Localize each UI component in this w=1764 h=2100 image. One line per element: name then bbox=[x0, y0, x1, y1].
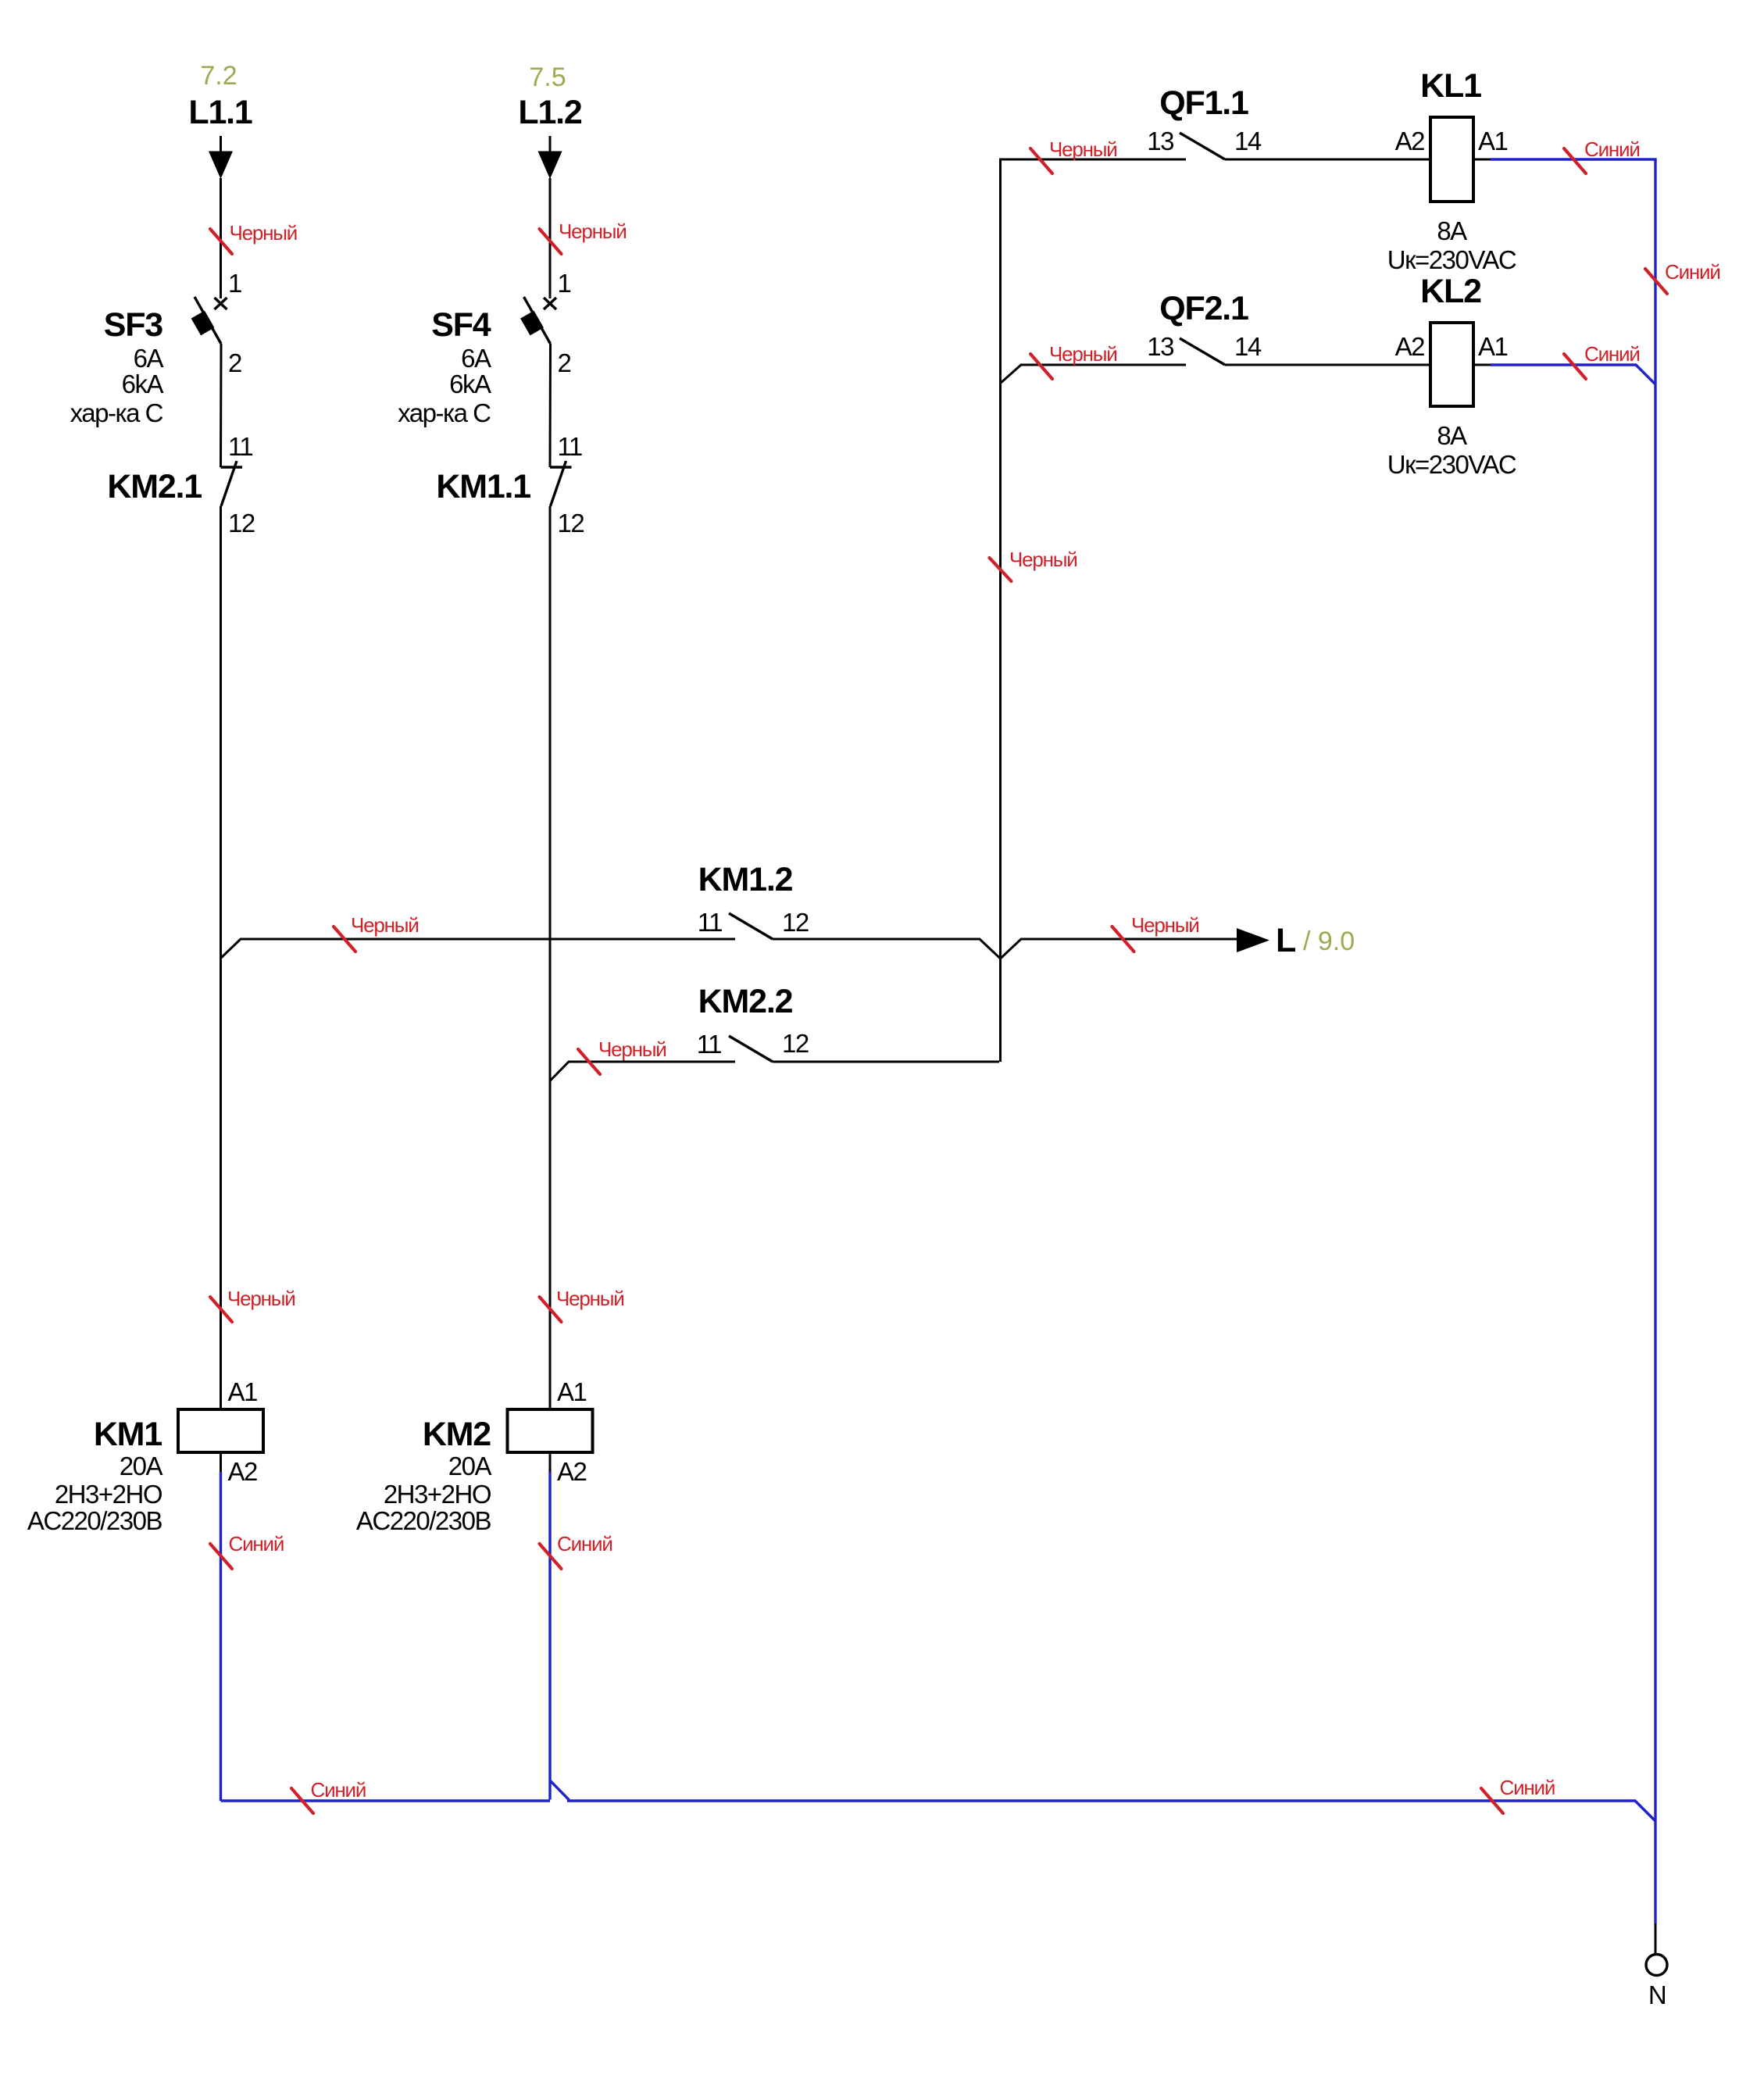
breaker SF3 blade bbox=[195, 297, 221, 344]
svg-text:KL2: KL2 bbox=[1420, 273, 1481, 310]
wire L1.1 down to SF3 pin 1 bbox=[220, 178, 222, 298]
svg-text:Синий: Синий bbox=[311, 1778, 366, 1802]
breaker SF3 release rectangle bbox=[191, 311, 215, 336]
relay coil KL2 rectangle bbox=[1430, 323, 1473, 406]
svg-text:20A: 20A bbox=[448, 1452, 492, 1480]
svg-text:KL1: KL1 bbox=[1420, 67, 1481, 105]
svg-text:Черный: Черный bbox=[1049, 342, 1117, 366]
relay coil KL1 rectangle bbox=[1430, 117, 1473, 202]
wire color slash Синий (below KM1) bbox=[210, 1544, 232, 1569]
jog from KM2 blue vertical into N bus bbox=[550, 1780, 570, 1800]
jog from control vertical to QF2.1 row bbox=[1001, 365, 1187, 384]
svg-text:13: 13 bbox=[1147, 332, 1173, 361]
svg-text:A1: A1 bbox=[1478, 127, 1508, 155]
svg-text:N: N bbox=[1648, 1980, 1666, 2009]
wire control vertical (QF branch) with corner to QF1.1 pin 13 bbox=[1001, 159, 1187, 1062]
wire KM1 A2 stub (black) bbox=[220, 1452, 222, 1472]
svg-text:хар-ка C: хар-ка C bbox=[398, 398, 491, 427]
svg-text:Черный: Черный bbox=[598, 1037, 666, 1061]
svg-text:2: 2 bbox=[228, 348, 241, 377]
breaker SF3 fixed contact x mark bbox=[215, 298, 227, 309]
wire QF1.1 pin14 to KL1 A2 bbox=[1225, 159, 1430, 161]
svg-text:Черный: Черный bbox=[559, 220, 627, 243]
wire color slash Синий (KL1 row) bbox=[1564, 148, 1586, 173]
wire to N terminal (black) bbox=[1655, 1923, 1657, 1955]
svg-text:KM2.1: KM2.1 bbox=[107, 468, 202, 505]
svg-text:A2: A2 bbox=[1395, 332, 1425, 361]
svg-text:A2: A2 bbox=[557, 1457, 587, 1486]
svg-text:12: 12 bbox=[228, 509, 255, 537]
terminal N circle bbox=[1646, 1955, 1667, 1976]
svg-text:A1: A1 bbox=[228, 1377, 258, 1406]
wire KM2.2 pin12 to control vertical corner bbox=[773, 1061, 999, 1063]
jog from L1.1 vertical to KM1.2 row bbox=[221, 939, 736, 959]
svg-text:Черный: Черный bbox=[556, 1287, 624, 1310]
svg-text:6kA: 6kA bbox=[122, 370, 164, 398]
svg-text:1: 1 bbox=[228, 269, 241, 298]
svg-text:Черный: Черный bbox=[1009, 548, 1077, 571]
svg-text:SF4: SF4 bbox=[431, 306, 491, 344]
svg-text:KM2: KM2 bbox=[423, 1416, 491, 1453]
wire KM1.1 pin12 down to coil KM2 A1 (long vertical) bbox=[549, 506, 552, 1409]
breaker SF4 blade bbox=[524, 297, 551, 344]
wire KM1 A2 to N bus (blue) bbox=[220, 1472, 222, 1801]
svg-text:хар-ка C: хар-ка C bbox=[70, 398, 163, 427]
coil KM1 rectangle bbox=[178, 1409, 263, 1452]
svg-text:13: 13 bbox=[1147, 127, 1173, 155]
wire KL1 A1 stub (black) bbox=[1473, 159, 1491, 161]
N bus bottom (blue) right segment with jog up to right vertical bbox=[567, 1801, 1655, 1821]
svg-text:7.5: 7.5 bbox=[529, 62, 566, 92]
wire color slash Синий (KL2 row) bbox=[1564, 354, 1586, 379]
svg-text:6A: 6A bbox=[461, 344, 491, 373]
svg-text:11: 11 bbox=[558, 432, 582, 461]
svg-text:2Н3+2НО: 2Н3+2НО bbox=[55, 1480, 162, 1509]
wire SF4 pin2 to KM1.1 pin 11 bbox=[549, 344, 552, 467]
svg-text:Синий: Синий bbox=[1500, 1776, 1555, 1799]
NO contact KM1.2 blade bbox=[729, 913, 773, 939]
svg-text:7.2: 7.2 bbox=[200, 61, 237, 91]
svg-text:L: L bbox=[1276, 922, 1295, 959]
wire color slash Черный (KM1.2 row right) bbox=[1112, 927, 1134, 952]
svg-text:8A: 8A bbox=[1437, 216, 1467, 245]
NC contact KM2.1 bar bbox=[221, 466, 243, 468]
NC contact KM1.1 blade bbox=[551, 461, 566, 506]
wire L1.2 down to SF4 pin 1 bbox=[549, 178, 552, 298]
wire KM1.2 pin12 to control vertical (V jog) bbox=[773, 939, 1237, 959]
arrow to net L bbox=[1237, 928, 1269, 952]
wire KL2 A1 to right N vertical (blue, with jog) bbox=[1491, 365, 1655, 384]
wire QF2.1 pin14 to KL2 A2 bbox=[1225, 364, 1430, 366]
svg-text:AC220/230В: AC220/230В bbox=[356, 1506, 491, 1535]
wire color slash Черный (L1.2 top) bbox=[540, 229, 562, 254]
wire color slash Синий (N bus left) bbox=[291, 1788, 313, 1813]
wire KM2 A2 to N bus (blue) bbox=[548, 1472, 551, 1800]
svg-text:Черный: Черный bbox=[1049, 137, 1117, 161]
svg-text:11: 11 bbox=[698, 908, 722, 937]
coil KM2 rectangle bbox=[508, 1409, 593, 1452]
svg-text:KM2.2: KM2.2 bbox=[698, 983, 793, 1020]
svg-text:KM1.2: KM1.2 bbox=[698, 861, 793, 898]
svg-text:QF1.1: QF1.1 bbox=[1159, 84, 1248, 122]
wire color slash Синий (right vertical) bbox=[1645, 269, 1667, 294]
wire KM2 A2 stub (black) bbox=[549, 1452, 552, 1472]
svg-text:Черный: Черный bbox=[230, 221, 298, 245]
svg-text:/ 9.0: / 9.0 bbox=[1303, 927, 1355, 956]
wire color slash Черный (L1.1 top) bbox=[210, 229, 232, 254]
breaker SF4 fixed contact x mark bbox=[544, 298, 556, 309]
svg-text:12: 12 bbox=[558, 509, 584, 537]
svg-text:2: 2 bbox=[558, 348, 571, 377]
svg-text:A2: A2 bbox=[228, 1457, 258, 1486]
wire SF3 pin2 to KM2.1 pin 11 bbox=[220, 344, 223, 467]
svg-text:A2: A2 bbox=[1395, 127, 1425, 155]
svg-text:12: 12 bbox=[782, 908, 809, 937]
svg-text:Черный: Черный bbox=[227, 1287, 295, 1310]
wire color slash Синий (N bus right) bbox=[1481, 1788, 1503, 1813]
svg-text:Синий: Синий bbox=[557, 1532, 612, 1555]
svg-text:8A: 8A bbox=[1437, 421, 1467, 450]
wire KM2.1 pin12 down to coil KM1 A1 (long vertical) bbox=[220, 506, 222, 1409]
svg-text:QF2.1: QF2.1 bbox=[1159, 290, 1248, 327]
wire color slash Черный (QF1.1 row) bbox=[1030, 148, 1052, 173]
svg-text:Черный: Черный bbox=[351, 913, 419, 937]
svg-text:1: 1 bbox=[558, 269, 571, 298]
NC contact KM1.1 bar bbox=[550, 466, 572, 468]
wire color slash Черный (QF2.1 row) bbox=[1030, 354, 1052, 379]
wire KL1 A1 to right N vertical (blue) bbox=[1491, 159, 1655, 1923]
svg-text:A1: A1 bbox=[1478, 332, 1508, 361]
svg-text:KM1: KM1 bbox=[94, 1416, 162, 1453]
svg-text:Uк=230VAC: Uк=230VAC bbox=[1387, 450, 1516, 479]
svg-text:Синий: Синий bbox=[1665, 260, 1720, 284]
svg-text:Синий: Синий bbox=[1584, 342, 1640, 366]
NC contact KM2.1 blade bbox=[221, 461, 237, 506]
wire color slash Черный (control vertical) bbox=[990, 558, 1012, 581]
svg-text:Черный: Черный bbox=[1131, 913, 1199, 937]
svg-text:2Н3+2НО: 2Н3+2НО bbox=[384, 1480, 491, 1509]
svg-text:11: 11 bbox=[228, 432, 252, 461]
source arrow L1.2 bbox=[538, 136, 562, 179]
svg-text:A1: A1 bbox=[557, 1377, 587, 1406]
N bus bottom (blue) left segment bbox=[221, 1799, 551, 1802]
svg-text:20A: 20A bbox=[120, 1452, 163, 1480]
svg-text:14: 14 bbox=[1234, 127, 1262, 155]
svg-text:6kA: 6kA bbox=[449, 370, 491, 398]
wire color slash Синий (below KM2) bbox=[540, 1544, 562, 1569]
breaker SF4 release rectangle bbox=[520, 311, 544, 336]
jog from L1.2 vertical to KM2.2 row bbox=[550, 1062, 735, 1081]
svg-text:KM1.1: KM1.1 bbox=[436, 468, 530, 505]
wire KL2 A1 stub (black) bbox=[1473, 364, 1491, 366]
wire color slash Черный (KM2.2 row) bbox=[578, 1049, 600, 1074]
svg-text:6A: 6A bbox=[134, 344, 164, 373]
wire color slash Черный (above KM1 coil) bbox=[210, 1297, 232, 1322]
wire color slash Черный (above KM2 coil) bbox=[540, 1297, 562, 1322]
svg-text:11: 11 bbox=[697, 1030, 721, 1059]
svg-text:12: 12 bbox=[782, 1029, 809, 1058]
NO contact QF2.1 blade bbox=[1180, 338, 1225, 365]
svg-text:L1.2: L1.2 bbox=[518, 94, 582, 131]
svg-text:Uк=230VAC: Uк=230VAC bbox=[1387, 245, 1516, 274]
svg-text:Синий: Синий bbox=[1584, 137, 1640, 161]
svg-text:14: 14 bbox=[1234, 332, 1262, 361]
svg-text:L1.1: L1.1 bbox=[188, 94, 252, 131]
wire color slash Черный (KM1.2 row left) bbox=[334, 927, 355, 952]
NO contact QF1.1 blade bbox=[1180, 133, 1225, 159]
NO contact KM2.2 blade bbox=[729, 1036, 773, 1062]
svg-text:SF3: SF3 bbox=[104, 306, 163, 344]
svg-text:Синий: Синий bbox=[229, 1532, 284, 1555]
svg-text:AC220/230В: AC220/230В bbox=[27, 1506, 162, 1535]
source arrow L1.1 bbox=[209, 136, 233, 179]
